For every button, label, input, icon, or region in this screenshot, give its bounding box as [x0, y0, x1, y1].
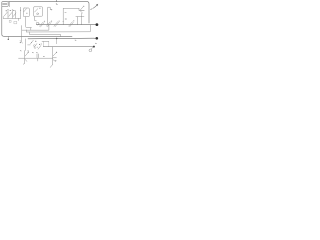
top curl a [7, 8, 8, 10]
Q base drop [78, 8, 80, 10]
chain stub [28, 44, 31, 46]
relay box left edge [43, 41, 45, 46]
wire under pots [3, 17, 20, 19]
junction dot mid [56, 38, 57, 39]
bottom wire [19, 57, 53, 59]
stub dot [8, 39, 9, 40]
switch blade 1 [39, 22, 44, 27]
wire stub right of label box [8, 2, 10, 7]
connector circle [89, 49, 92, 52]
contact dot 4 [73, 20, 74, 21]
contact dot 2 [51, 21, 52, 22]
numeral below frame [56, 3, 57, 6]
left drop vertical [23, 51, 25, 65]
faint drop from junction [56, 39, 58, 44]
cluster at bundle foot [20, 40, 23, 43]
chain dot 1 [35, 41, 36, 42]
switch bus wire [37, 24, 96, 26]
vertical lead a [7, 10, 9, 18]
vertical lead c [15, 11, 17, 19]
Q emitter diag [80, 11, 82, 13]
right cluster arrow [53, 53, 56, 57]
cap plate 1 [36, 54, 38, 58]
switch blade 4 [69, 22, 74, 27]
vertical at x20.6 [20, 7, 22, 18]
B2 inner circle [37, 13, 39, 15]
ground/output bus (dark) [28, 37, 93, 40]
speck near cap 2 [36, 52, 37, 54]
staircase bend 3 [29, 32, 31, 34]
bottom diagonal tail [50, 65, 52, 68]
connector lead [91, 47, 92, 49]
relay box right edge [48, 41, 50, 46]
numeral speck B [95, 42, 96, 44]
speck near cap [32, 52, 33, 54]
contact dot 1 [44, 21, 45, 22]
chain dot 2 [39, 44, 40, 45]
right cluster dot [56, 52, 57, 53]
dot a [6, 10, 7, 11]
lower wire to right [43, 46, 93, 48]
comp below a [9, 20, 11, 22]
chain slash 2 [34, 44, 37, 48]
U leg 2 [81, 17, 83, 25]
potentiometer cluster left: slash 1 [4, 12, 7, 16]
junction blob [63, 21, 64, 22]
numeral above frame [55, 0, 57, 1]
chain circle [34, 45, 36, 47]
B1 lead down [26, 17, 32, 28]
slash 3 [13, 13, 16, 17]
mid vertical wire [62, 8, 64, 24]
bus terminal dot [96, 37, 99, 40]
U leg 1 [77, 17, 79, 25]
numeral speck C [20, 50, 21, 52]
Q bar [79, 9, 84, 11]
B1 diagonal [24, 9, 27, 12]
left cluster dot [28, 52, 29, 53]
chain speck 1 [30, 41, 33, 44]
bus link to dot [93, 37, 95, 39]
short wire y41 [42, 40, 49, 42]
Q lead down [81, 13, 83, 16]
label text smudge [3, 3, 7, 5]
box B2 [34, 7, 43, 16]
arrowhead [96, 4, 98, 6]
step wire [48, 7, 52, 24]
speck mid [43, 55, 44, 57]
component under B2 [36, 22, 39, 25]
staircase bend 2 [26, 30, 28, 32]
lower wire dot [93, 46, 95, 48]
right cluster dot2 [55, 60, 56, 61]
foot dot [20, 42, 21, 43]
numeral speck D [28, 50, 29, 52]
figure arrow [91, 5, 98, 9]
left cluster marks below [25, 59, 27, 61]
Q arrow [80, 7, 83, 10]
inner mark -o [65, 12, 66, 14]
bottom wire right ext [53, 57, 57, 59]
dot b [10, 10, 11, 11]
chain dot 3 [34, 47, 35, 48]
B2 dot [39, 8, 40, 9]
bundle vertical left [21, 26, 23, 42]
label box F [2, 2, 8, 7]
asterisk mark [65, 18, 66, 19]
frame left border [2, 6, 72, 36]
U bottom [76, 16, 84, 18]
dot c [13, 10, 14, 11]
contact dot 3 [59, 21, 60, 22]
wire to transistor Q [63, 7, 79, 9]
switch blade 3 [54, 22, 59, 27]
slash 2 [9, 13, 12, 17]
stub+dot below frame [7, 36, 9, 38]
step dot [51, 9, 52, 10]
outer frame [8, 2, 89, 23]
left cluster arrow [25, 53, 28, 57]
bundle line 2 [27, 25, 91, 32]
B2 diagonal [35, 9, 38, 12]
tick below wire [18, 18, 20, 20]
bundle line 1 [22, 25, 49, 31]
comp below b [14, 21, 17, 24]
bundle line 3 [30, 34, 61, 36]
cap plate 2 [38, 54, 40, 58]
Q arrow dot [83, 6, 84, 7]
top curl b [12, 9, 13, 11]
box B1 [23, 8, 29, 17]
B1 dot [26, 13, 27, 14]
chain slash 1 [30, 40, 33, 44]
staircase bend 1 [30, 28, 32, 31]
transistor chain vertical [25, 39, 27, 51]
terminal dot right [96, 23, 99, 26]
left tick [2, 16, 4, 18]
cap tick below [37, 58, 39, 61]
numeral speck A [75, 39, 76, 41]
vertical lead b [12, 10, 14, 18]
switch blade 2 [46, 22, 51, 27]
chain slash 3 [38, 46, 41, 50]
right cluster mark [53, 60, 55, 62]
dot on x20.6 top [20, 10, 21, 11]
right drop vertical [52, 47, 54, 65]
B2 lead down [35, 16, 37, 21]
chain speck 2 [36, 46, 39, 49]
chain speck 3 [40, 43, 43, 46]
